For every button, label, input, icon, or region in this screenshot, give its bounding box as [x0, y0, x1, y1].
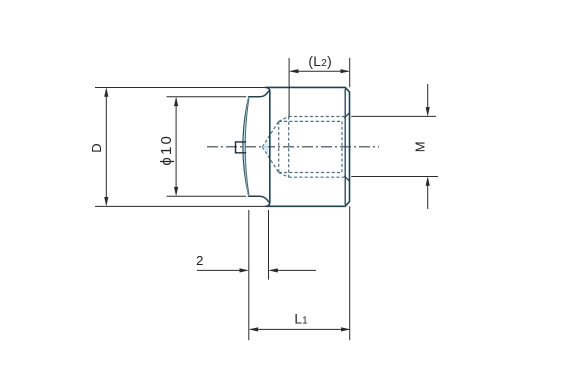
svg-text:2: 2 — [196, 253, 203, 268]
svg-text:(L2): (L2) — [308, 54, 332, 69]
svg-text:ϕ10: ϕ10 — [158, 134, 175, 166]
svg-text:D: D — [89, 143, 104, 152]
svg-text:M: M — [413, 141, 428, 152]
